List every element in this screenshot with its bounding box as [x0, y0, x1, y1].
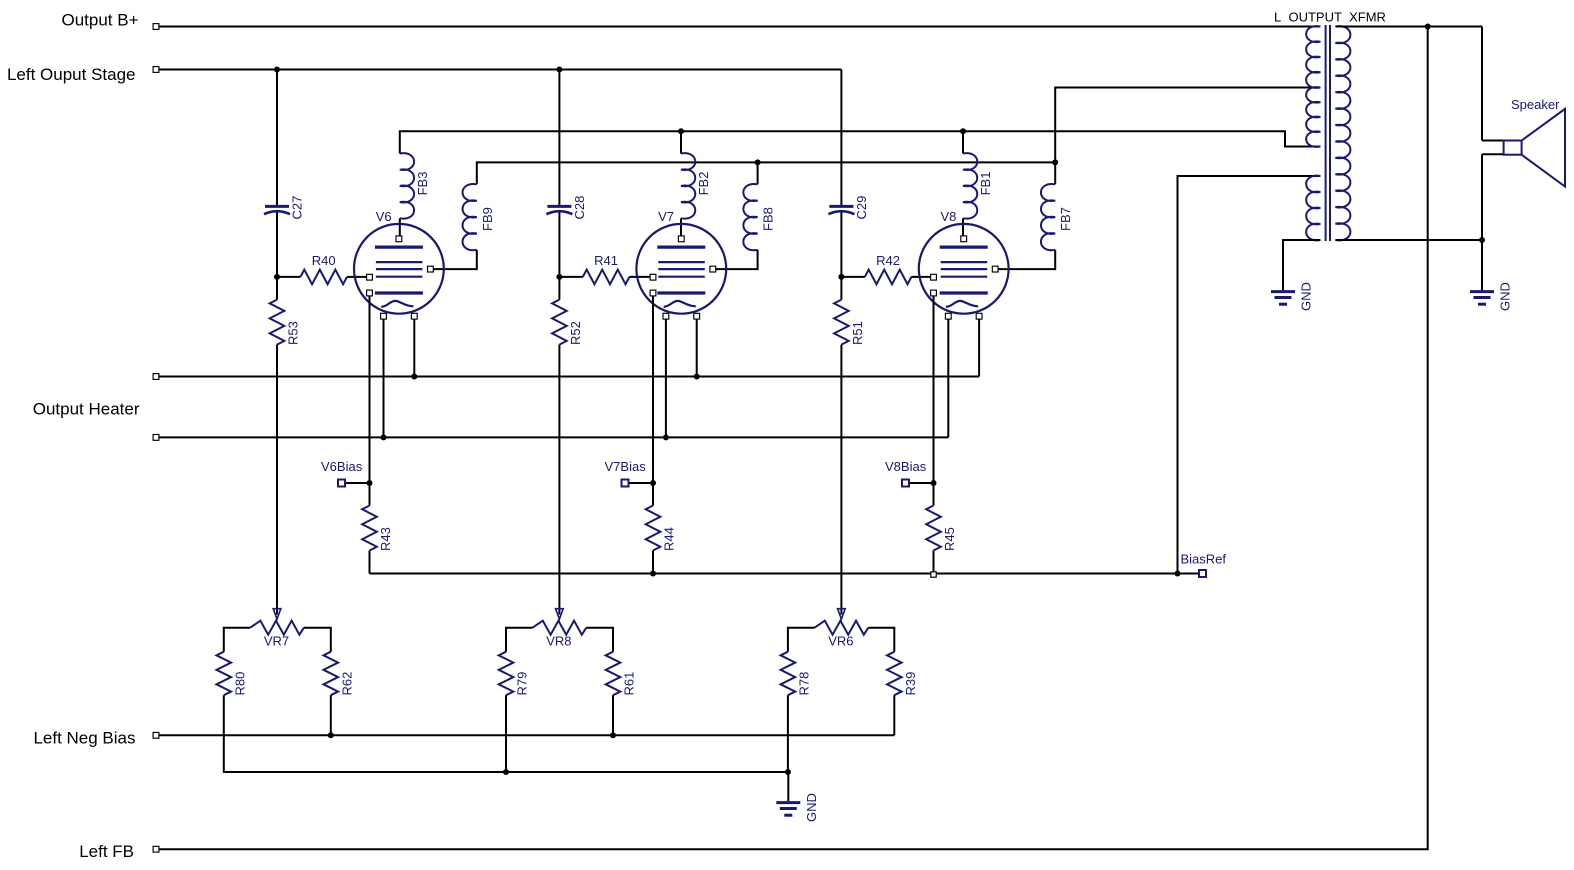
junction R40 tap [274, 274, 280, 280]
inductor FB3 [400, 153, 414, 218]
wire V8 heater b down [978, 319, 980, 376]
wire R78 down [787, 695, 789, 772]
svg-text:Left Neg Bias: Left Neg Bias [33, 729, 135, 748]
wire V7Bias column [652, 296, 654, 506]
wire VR6 left lead [788, 628, 815, 652]
net port V6Bias [338, 480, 345, 487]
pin V8 heater a [945, 313, 951, 319]
inductor FB9 [463, 184, 477, 250]
junction R79 lower bus [503, 769, 509, 775]
wire BiasRef bus [370, 573, 1203, 575]
resistor R51 [834, 300, 849, 345]
port Left FB [153, 846, 159, 852]
svg-text:R41: R41 [594, 253, 618, 268]
svg-text:R61: R61 [622, 672, 637, 696]
port Output Heater B [153, 435, 159, 441]
svg-text:R43: R43 [378, 527, 393, 551]
resistor R53 [270, 300, 285, 345]
wire R40 right lead [347, 276, 370, 278]
pin R45 BiasRef [931, 572, 936, 577]
junction FB8 screen bus [755, 159, 761, 165]
svg-text:FB1: FB1 [978, 172, 993, 196]
svg-text:V6Bias: V6Bias [321, 459, 363, 474]
wire R51 to wiper [840, 345, 842, 615]
inductor FB8 [743, 184, 757, 250]
pin V6 plate [396, 236, 402, 242]
inductor FB1 [963, 153, 977, 218]
svg-text:R44: R44 [662, 527, 677, 551]
pin V8 heater b [976, 313, 982, 319]
resistor R62 [324, 652, 339, 696]
wire R39 to neg bias end [893, 695, 895, 735]
svg-text:R80: R80 [232, 672, 247, 696]
junction V6 heater a [381, 434, 387, 440]
pin V7 plate [678, 236, 684, 242]
svg-text:Output B+: Output B+ [61, 11, 138, 30]
wire heater line 1 [159, 376, 979, 378]
wire primary lower bottom to ground [1283, 240, 1320, 290]
ground GND bias [776, 801, 800, 804]
junction R44 BiasRef [650, 571, 656, 577]
pin V6 heater a [381, 313, 387, 319]
wire V7Bias stub [628, 482, 653, 484]
wire FB1 lead [962, 131, 964, 153]
junction V7 heater b [694, 374, 700, 380]
junction C27 tap [274, 67, 280, 73]
wire Left FB bus [159, 27, 1428, 850]
wire FB8 to screen pin [716, 250, 758, 269]
svg-text:R62: R62 [339, 672, 354, 696]
svg-text:R45: R45 [942, 527, 957, 551]
wire FB1 to plate [962, 218, 964, 236]
resistor R39 [887, 652, 902, 696]
net port V8Bias [902, 480, 909, 487]
svg-text:GND: GND [804, 793, 819, 822]
wire BiasRef riser to transformer [1178, 176, 1321, 574]
svg-text:C29: C29 [854, 196, 869, 220]
junction secondary bottom [1479, 237, 1485, 243]
svg-text:VR6: VR6 [828, 633, 853, 648]
wire C28 column upper [558, 70, 560, 207]
wire R53 to wiper [276, 345, 278, 615]
svg-text:R79: R79 [515, 672, 530, 696]
svg-text:Left Ouput Stage: Left Ouput Stage [7, 65, 136, 84]
ground GND speaker [1470, 290, 1494, 293]
junction V7 heater a [663, 434, 669, 440]
pin V8 cathode [931, 290, 937, 296]
port Left Ouput Stage [153, 67, 159, 73]
wiper arrow VR8 [556, 609, 564, 620]
svg-text:FB7: FB7 [1058, 207, 1073, 231]
wire V7 heater b down [696, 319, 698, 376]
junction R62 neg bias [328, 732, 334, 738]
wire secondary top [1335, 26, 1482, 28]
svg-text:V8: V8 [941, 209, 957, 224]
wire R79 down [505, 695, 507, 772]
wire V7Bias column lower [652, 551, 654, 574]
junction R41 tap [556, 274, 562, 280]
tube V7 [636, 224, 726, 314]
resistor R45 [926, 506, 941, 551]
junction C28 tap [556, 67, 562, 73]
svg-text:VR8: VR8 [546, 633, 571, 648]
svg-text:R40: R40 [312, 253, 336, 268]
wire R80 down to lower bus [224, 695, 789, 772]
wire VR8 left lead [506, 628, 533, 652]
transformer primary winding middle [1306, 87, 1320, 147]
wire Output B+ bus [159, 26, 1320, 28]
wire V8Bias column lower [933, 551, 935, 574]
svg-text:VR7: VR7 [264, 633, 289, 648]
svg-text:R39: R39 [903, 672, 918, 696]
wire V8 heater a down [947, 319, 949, 437]
transformer secondary winding [1335, 26, 1350, 240]
wire speaker stub bottom [1482, 153, 1504, 155]
transformer core [1325, 25, 1327, 241]
pin V7 heater a [663, 313, 669, 319]
net port V7Bias [622, 480, 629, 487]
resistor R42 [865, 270, 912, 285]
wire R42 right lead [911, 276, 933, 278]
potentiometer VR8 [533, 621, 587, 635]
pin V7 heater b [694, 313, 700, 319]
junction Left FB to secondary top [1425, 24, 1431, 30]
junction R61 neg bias [610, 732, 616, 738]
inductor FB2 [681, 153, 695, 218]
net port BiasRef [1199, 570, 1206, 577]
wire screen bus [477, 162, 1055, 184]
junction V8Bias [931, 480, 937, 486]
pin V8 grid [931, 274, 937, 280]
wire R40 left lead [277, 276, 300, 278]
svg-text:R51: R51 [850, 321, 865, 345]
wire V8Bias column [933, 296, 935, 506]
potentiometer VR6 [815, 621, 869, 635]
wire FB7 to screen pin [998, 250, 1055, 269]
pin V6 screen [428, 266, 434, 272]
junction V6Bias [367, 480, 373, 486]
pin V6 heater b [411, 313, 417, 319]
wire C29 column mid [840, 213, 842, 300]
wire V6Bias column lower [369, 551, 371, 574]
junction R78 lower bus and ground [785, 769, 791, 775]
wire R62 to neg bias [330, 695, 332, 735]
svg-text:R53: R53 [286, 321, 301, 345]
resistor R43 [362, 506, 377, 551]
wire V6Bias stub [345, 482, 370, 484]
svg-text:V6: V6 [376, 209, 392, 224]
capacitor C28 [547, 205, 571, 208]
junction FB1 plate bus [960, 128, 966, 134]
wire plate bus [400, 131, 1321, 153]
wire V6Bias column [369, 296, 371, 506]
wire speaker column upper [1481, 27, 1483, 141]
wire R41 left lead [559, 276, 582, 278]
junction R42 tap [838, 274, 844, 280]
wire V7 heater a down [665, 319, 667, 437]
svg-text:FB3: FB3 [415, 172, 430, 196]
svg-text:GND: GND [1498, 282, 1513, 311]
pin V6 grid [367, 274, 373, 280]
tube V6 [354, 224, 444, 314]
capacitor C29 [829, 205, 853, 208]
resistor R61 [606, 652, 621, 696]
wire R61 to neg bias [612, 695, 614, 735]
svg-text:FB9: FB9 [480, 207, 495, 231]
wire FB8 lead [757, 162, 759, 184]
resistor R40 [300, 270, 347, 285]
junction FB7 screen bus riser [1052, 159, 1058, 165]
pin V6 cathode [367, 290, 373, 296]
wire V8Bias stub [909, 482, 934, 484]
svg-text:R42: R42 [876, 253, 900, 268]
wire C29 column upper [840, 70, 842, 207]
wire FB7 lead [1054, 162, 1056, 184]
wire VR7 left lead [224, 628, 250, 652]
resistor R52 [552, 300, 567, 345]
transformer primary winding upper [1306, 26, 1320, 88]
wire Left Neg Bias bus [159, 734, 894, 736]
speaker SP1 [1504, 109, 1565, 187]
wiper arrow VR6 [838, 609, 846, 620]
svg-text:R78: R78 [796, 672, 811, 696]
svg-text:FB2: FB2 [696, 172, 711, 196]
wire heater line 2 [159, 436, 948, 438]
resistor R41 [583, 270, 630, 285]
capacitor C27 [265, 205, 289, 208]
wire FB9 to screen pin [433, 250, 476, 269]
wire R42 left lead [841, 276, 864, 278]
wire VR8 right lead [586, 628, 613, 652]
pin V8 plate [961, 236, 967, 242]
wire V6 heater b down [413, 319, 415, 376]
tube V8 [919, 224, 1009, 314]
resistor R79 [499, 652, 514, 696]
junction V7Bias [650, 480, 656, 486]
wire FB3 to plate [399, 218, 401, 236]
ground GND transformer [1271, 290, 1295, 293]
svg-text:Left FB: Left FB [79, 842, 134, 861]
svg-text:V8Bias: V8Bias [885, 459, 927, 474]
resistor R44 [646, 506, 661, 551]
svg-text:Speaker: Speaker [1511, 97, 1560, 112]
svg-text:BiasRef: BiasRef [1181, 552, 1227, 567]
wire FB2 to plate [680, 218, 682, 236]
potentiometer VR7 [250, 621, 304, 635]
svg-text:FB8: FB8 [761, 207, 776, 231]
port Output Heater A [153, 374, 159, 380]
pin V7 grid [650, 274, 656, 280]
svg-text:C28: C28 [572, 196, 587, 220]
wire secondary bottom [1335, 239, 1482, 241]
port Left Neg Bias [153, 732, 159, 738]
svg-text:V7Bias: V7Bias [605, 459, 647, 474]
svg-text:Output Heater: Output Heater [33, 400, 140, 419]
wire C27 column upper [276, 70, 278, 207]
transformer primary winding lower [1306, 176, 1320, 241]
wire screen bus riser to transformer tap [1055, 88, 1320, 163]
junction V6 heater b [411, 374, 417, 380]
pin V7 cathode [650, 290, 656, 296]
wire Left Ouput Stage bus [159, 69, 841, 71]
wire VR6 right lead [868, 628, 894, 652]
junction BiasRef riser [1175, 571, 1181, 577]
wiper arrow VR7 [273, 609, 281, 620]
wire FB2 lead [680, 131, 682, 153]
wire ground drop [787, 772, 789, 801]
wire R41 right lead [629, 276, 653, 278]
port Output B+ [153, 24, 159, 30]
svg-text:L OUTPUT XFMR: L OUTPUT XFMR [1274, 10, 1386, 25]
wire VR7 right lead [304, 628, 331, 652]
wire speaker stub top [1482, 140, 1504, 142]
resistor R78 [781, 652, 796, 696]
svg-text:V7: V7 [658, 209, 674, 224]
wire R52 to wiper [558, 345, 560, 615]
wire V6 heater a down [383, 319, 385, 437]
wire C28 column mid [558, 213, 560, 300]
pin V7 screen [710, 266, 716, 272]
junction FB2 plate bus [678, 128, 684, 134]
svg-text:C27: C27 [290, 196, 305, 220]
inductor FB7 [1041, 184, 1055, 250]
svg-text:GND: GND [1299, 282, 1314, 311]
wire C27 column mid [276, 213, 278, 300]
svg-text:R52: R52 [568, 321, 583, 345]
pin V8 screen [992, 266, 998, 272]
wire speaker column lower [1481, 154, 1483, 290]
resistor R80 [217, 652, 232, 696]
